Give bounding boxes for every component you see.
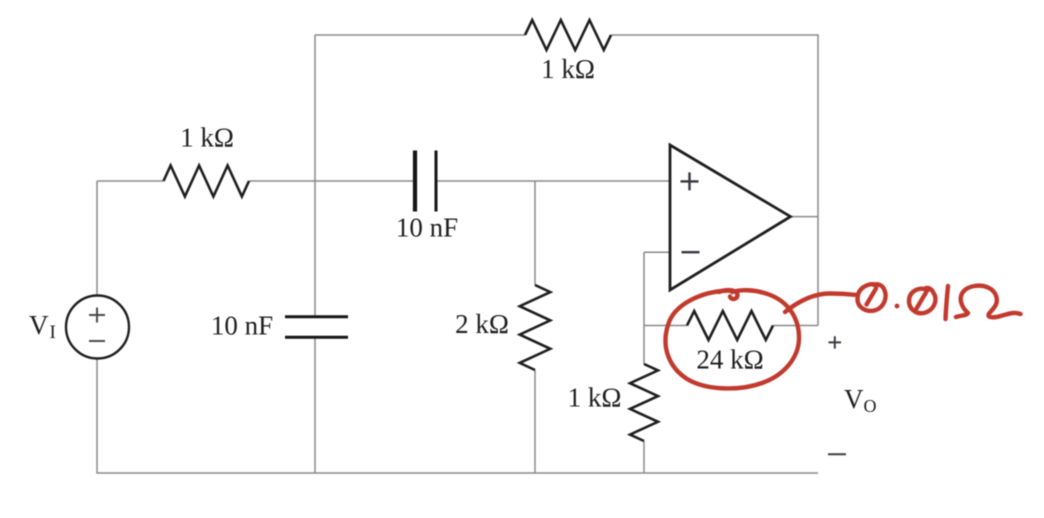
svg-text:1 kΩ: 1 kΩ (568, 383, 622, 413)
svg-text:10 nF: 10 nF (396, 213, 458, 243)
svg-text:VI: VI (29, 310, 56, 343)
svg-text:2 kΩ: 2 kΩ (455, 309, 509, 339)
svg-text:24 kΩ: 24 kΩ (696, 345, 763, 375)
svg-text:VO: VO (844, 384, 877, 416)
svg-text:1 kΩ: 1 kΩ (180, 123, 234, 153)
svg-text:10 nF: 10 nF (211, 311, 273, 341)
svg-text:1 kΩ: 1 kΩ (541, 54, 595, 84)
